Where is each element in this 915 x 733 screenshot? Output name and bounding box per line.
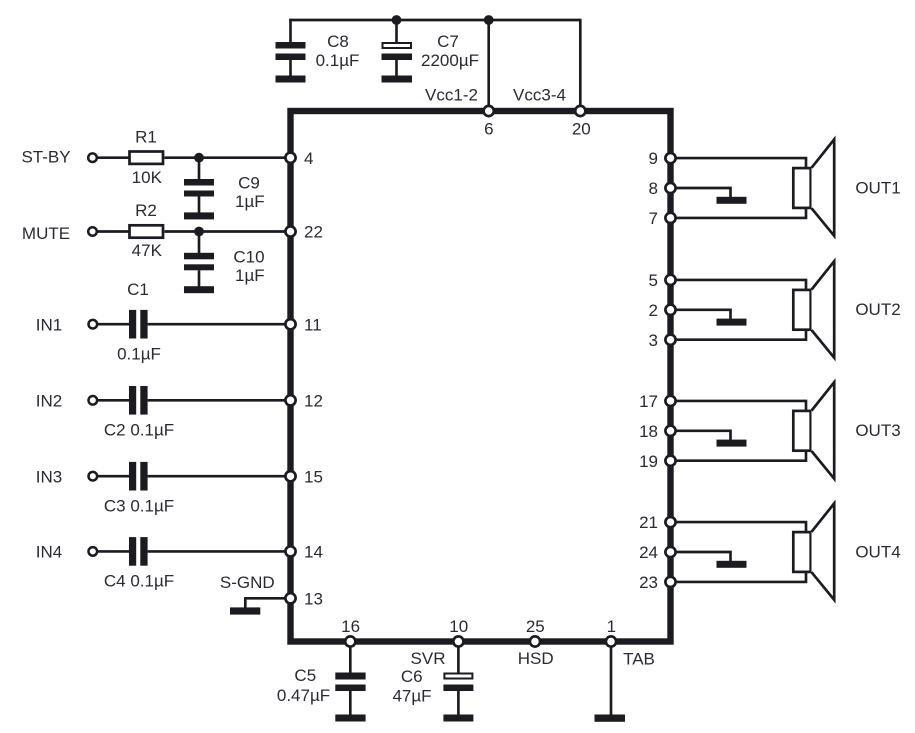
terminal IN2 xyxy=(89,396,98,405)
svg-text:1µF: 1µF xyxy=(235,266,265,285)
resistor R2 xyxy=(130,225,164,237)
ground bar of OUT4 return xyxy=(717,561,747,568)
pin number 7 xyxy=(649,209,658,228)
capacitor C9 lead xyxy=(198,158,201,180)
speaker OUT2 driver box xyxy=(793,290,810,330)
speaker OUT2 cone xyxy=(812,261,835,358)
wire rail to pin 6 xyxy=(487,20,490,110)
svg-text:1: 1 xyxy=(607,617,616,636)
wire pin 19 to speaker - xyxy=(672,450,806,460)
capacitor C1 right plate xyxy=(140,310,147,339)
value 47K of R2 xyxy=(132,241,163,260)
pin 3 circle xyxy=(665,335,675,345)
net label IN1 xyxy=(36,315,62,334)
value 0.1µF of C8 xyxy=(316,51,360,70)
node junction dot at pin6 branch xyxy=(484,15,494,25)
pin number 3 xyxy=(649,331,658,350)
wire pin 17 to speaker + xyxy=(672,401,806,411)
svg-text:21: 21 xyxy=(639,513,658,532)
terminal IN1 xyxy=(89,320,98,329)
wire C3 to pin 15 xyxy=(148,475,289,478)
pin number 21 xyxy=(639,513,658,532)
speaker OUT3 driver box xyxy=(793,411,810,451)
svg-text:4: 4 xyxy=(304,149,313,168)
wire IN2 to C2 xyxy=(97,399,129,402)
svg-text:R1: R1 xyxy=(135,128,157,147)
capacitor C8 bottom plate xyxy=(276,54,306,61)
pin number 10 xyxy=(449,617,468,636)
svg-text:R2: R2 xyxy=(135,201,157,220)
pin number 6 xyxy=(484,120,493,139)
svg-text:13: 13 xyxy=(304,589,323,608)
svg-text:14: 14 xyxy=(304,543,323,562)
pin 9 circle xyxy=(665,153,675,163)
capacitor C7 lead to ground xyxy=(395,60,398,77)
speaker OUT1 cone xyxy=(812,139,835,236)
wire C1 to pin 11 xyxy=(148,323,289,326)
wire IN4 to C4 xyxy=(97,550,129,553)
pin 13 circle xyxy=(285,593,295,603)
value 10K of R1 xyxy=(132,168,163,187)
net label OUT4 xyxy=(855,542,900,561)
wire C2 to pin 12 xyxy=(148,399,289,402)
pin 7 circle xyxy=(665,213,675,223)
capacitor C6 bottom plate xyxy=(443,685,473,692)
svg-text:IN3: IN3 xyxy=(36,467,62,486)
svg-text:24: 24 xyxy=(639,543,658,562)
capacitor C2 right plate xyxy=(140,386,147,415)
wire pin 10 lead down xyxy=(457,642,460,674)
svg-text:47K: 47K xyxy=(132,241,163,260)
pin number 23 xyxy=(639,573,658,592)
ground bar of C6 xyxy=(443,715,473,722)
wire pin 21 to speaker + xyxy=(672,522,806,532)
wire C4 to pin 14 xyxy=(148,550,289,553)
wire pin 13 to signal ground xyxy=(245,598,286,608)
net label IN2 xyxy=(36,391,62,410)
label C6 xyxy=(401,667,423,686)
svg-text:12: 12 xyxy=(304,391,323,410)
svg-text:10K: 10K xyxy=(132,168,163,187)
wire pin 23 to speaker - xyxy=(672,572,806,582)
resistor R1 xyxy=(130,152,164,164)
pin number 18 xyxy=(639,422,658,441)
svg-text:C9: C9 xyxy=(238,174,260,193)
svg-text:C1: C1 xyxy=(127,280,149,299)
capacitor C7 lead xyxy=(395,20,398,43)
svg-text:19: 19 xyxy=(639,452,658,471)
net label OUT3 xyxy=(855,421,900,440)
wire pin 1 TAB lead to ground xyxy=(610,642,613,716)
svg-text:C7: C7 xyxy=(437,32,459,51)
pin 23 circle xyxy=(665,577,675,587)
wire rail to pin 20 xyxy=(579,19,582,110)
svg-text:OUT4: OUT4 xyxy=(855,542,900,561)
svg-text:6: 6 xyxy=(484,120,493,139)
wire pin 24 to ground xyxy=(672,552,731,562)
wire pin 5 to speaker + xyxy=(672,280,806,290)
pin 14 circle xyxy=(285,546,295,556)
pin 16 circle xyxy=(345,636,355,646)
node junction dot at C7 on rail xyxy=(392,15,402,25)
op-amp-IC U1 TDA7560 body xyxy=(291,111,671,642)
capacitor C1 left plate xyxy=(129,310,136,339)
wire R2 to pin 22 xyxy=(165,230,290,233)
pin 2 circle xyxy=(665,305,675,315)
svg-text:11: 11 xyxy=(304,315,322,334)
svg-text:1µF: 1µF xyxy=(235,192,265,211)
speaker OUT1 driver box xyxy=(793,168,810,208)
svg-text:2: 2 xyxy=(649,301,658,320)
svg-text:3: 3 xyxy=(649,331,658,350)
capacitor C8 lead xyxy=(289,19,292,43)
label C4 0.1µF xyxy=(104,572,174,591)
pin 17 circle xyxy=(665,396,675,406)
svg-text:IN4: IN4 xyxy=(36,543,62,562)
svg-text:2200µF: 2200µF xyxy=(421,51,479,70)
net label Vcc3-4 xyxy=(513,86,566,105)
pin number 24 xyxy=(639,543,658,562)
capacitor C10 bottom plate xyxy=(184,264,214,270)
ground bar of C10 xyxy=(184,286,214,293)
wire pin 7 to speaker - xyxy=(672,208,806,218)
speaker OUT4 cone xyxy=(812,503,835,600)
value 1µF of C9 xyxy=(235,192,265,211)
terminal ST-BY xyxy=(88,153,97,162)
svg-text:C6: C6 xyxy=(401,667,423,686)
wire pin 3 to speaker - xyxy=(672,329,806,339)
capacitor C5 top plate xyxy=(335,673,365,680)
speaker OUT4 driver box xyxy=(793,532,810,572)
svg-text:8: 8 xyxy=(649,179,658,198)
pin 11 circle xyxy=(285,319,295,329)
svg-text:C4 0.1µF: C4 0.1µF xyxy=(104,572,174,591)
svg-text:23: 23 xyxy=(639,573,658,592)
capacitor C3 right plate xyxy=(140,462,147,491)
capacitor C8 lead to ground xyxy=(289,60,292,77)
wire pin 16 lead down xyxy=(349,642,352,674)
value 0.1µF of C1 xyxy=(117,344,161,363)
pin number 2 xyxy=(649,301,658,320)
ground bar of OUT3 return xyxy=(717,440,747,447)
wire IN3 to C3 xyxy=(97,475,129,478)
svg-text:TAB: TAB xyxy=(623,649,655,668)
value 0.47µF of C5 xyxy=(277,686,330,705)
pin 25 circle xyxy=(530,636,540,646)
pin number 14 xyxy=(304,543,323,562)
ground bar of C9 xyxy=(184,212,214,219)
label R2 xyxy=(135,201,157,220)
svg-text:Vcc3-4: Vcc3-4 xyxy=(513,86,566,105)
pin number 25 xyxy=(526,617,545,636)
label C9 xyxy=(238,174,260,193)
pin number 16 xyxy=(341,617,360,636)
net label ST-BY xyxy=(21,147,70,166)
svg-text:MUTE: MUTE xyxy=(22,224,70,243)
label C8 xyxy=(327,32,349,51)
label C1 xyxy=(127,280,149,299)
svg-text:Vcc1-2: Vcc1-2 xyxy=(425,86,478,105)
node junction dot ST-BY/C9 xyxy=(194,153,204,163)
pin 8 circle xyxy=(665,183,675,193)
terminal MUTE xyxy=(88,227,97,236)
wire pin 9 to speaker + xyxy=(672,158,806,168)
pin 1 circle xyxy=(606,636,616,646)
svg-text:C8: C8 xyxy=(327,32,349,51)
svg-text:9: 9 xyxy=(649,149,658,168)
pin number 9 xyxy=(649,149,658,168)
speaker OUT3 cone xyxy=(812,382,835,479)
capacitor C8 top plate xyxy=(276,42,306,49)
net label MUTE xyxy=(22,224,70,243)
capacitor C10 lead to ground xyxy=(198,270,201,287)
pin number 4 xyxy=(304,149,313,168)
net label IN4 xyxy=(36,543,62,562)
svg-text:C10: C10 xyxy=(233,248,264,267)
svg-text:18: 18 xyxy=(639,422,658,441)
capacitor C9 lead to ground xyxy=(198,197,201,214)
svg-text:ST-BY: ST-BY xyxy=(21,147,70,166)
pin 19 circle xyxy=(665,456,675,466)
svg-text:OUT3: OUT3 xyxy=(855,421,900,440)
pin 10 circle xyxy=(453,636,463,646)
pin 6 circle xyxy=(484,106,494,116)
ground bar of C8 xyxy=(276,76,306,83)
net label OUT2 xyxy=(855,300,900,319)
capacitor C5 lead to ground xyxy=(349,691,352,716)
wire pin 18 to ground xyxy=(672,431,731,441)
capacitor C2 left plate xyxy=(129,386,136,415)
svg-text:17: 17 xyxy=(639,392,658,411)
value 47µF of C6 xyxy=(392,687,431,706)
pin 21 circle xyxy=(665,517,675,527)
label TAB xyxy=(623,649,655,668)
pin 22 circle xyxy=(285,226,295,236)
pin 24 circle xyxy=(665,547,675,557)
capacitor C7 bottom plate xyxy=(382,54,413,61)
terminal IN4 xyxy=(89,547,98,556)
ground bar of C7 xyxy=(382,76,413,83)
capacitor C4 left plate xyxy=(129,537,136,566)
pin number 13 xyxy=(304,589,323,608)
pin number 19 xyxy=(639,452,658,471)
svg-text:10: 10 xyxy=(449,617,468,636)
net label S-GND xyxy=(220,573,275,592)
capacitor C9 bottom plate xyxy=(184,191,214,197)
pin number 11 xyxy=(304,315,322,334)
svg-text:16: 16 xyxy=(341,617,360,636)
pin number 15 xyxy=(304,467,323,486)
svg-text:OUT2: OUT2 xyxy=(855,300,900,319)
svg-text:0.1µF: 0.1µF xyxy=(316,51,360,70)
svg-text:0.1µF: 0.1µF xyxy=(117,344,161,363)
svg-text:IN2: IN2 xyxy=(36,391,62,410)
wire pin 2 to ground xyxy=(672,310,731,320)
terminal IN3 xyxy=(89,472,98,481)
svg-text:15: 15 xyxy=(304,467,323,486)
ground bar of OUT2 return xyxy=(717,319,747,326)
ground bar of TAB pin 1 xyxy=(595,715,626,722)
wire ST-BY to R1 xyxy=(97,156,129,159)
svg-text:47µF: 47µF xyxy=(392,687,431,706)
value 2200µF of C7 xyxy=(421,51,479,70)
pin number 1 xyxy=(607,617,616,636)
svg-text:7: 7 xyxy=(649,209,658,228)
capacitor C4 right plate xyxy=(140,537,147,566)
svg-text:SVR: SVR xyxy=(411,649,446,668)
svg-text:22: 22 xyxy=(304,223,323,242)
svg-text:25: 25 xyxy=(526,617,545,636)
pin number 8 xyxy=(649,179,658,198)
label C2 0.1µF xyxy=(104,421,174,440)
svg-text:IN1: IN1 xyxy=(36,315,62,334)
pin number 20 xyxy=(572,120,591,139)
net label Vcc1-2 xyxy=(425,86,478,105)
net label OUT1 xyxy=(855,178,900,197)
pin number 12 xyxy=(304,391,323,410)
pin 4 circle xyxy=(285,153,295,163)
value 1µF of C10 xyxy=(235,266,265,285)
pin number 5 xyxy=(649,271,658,290)
svg-text:20: 20 xyxy=(572,120,591,139)
svg-text:HSD: HSD xyxy=(518,649,554,668)
node junction dot MUTE/C10 xyxy=(194,227,204,237)
label R1 xyxy=(135,128,157,147)
wire Vcc top rail xyxy=(289,19,580,22)
ground bar of C5 xyxy=(335,715,365,722)
capacitor C5 bottom plate xyxy=(335,685,365,692)
svg-text:5: 5 xyxy=(649,271,658,290)
capacitor C10 lead xyxy=(198,232,201,254)
wire pin 8 to ground xyxy=(672,188,731,198)
capacitor C10 top plate xyxy=(184,253,214,259)
label HSD xyxy=(518,649,554,668)
net label IN3 xyxy=(36,467,62,486)
pin 20 circle xyxy=(575,106,585,116)
svg-text:C3 0.1µF: C3 0.1µF xyxy=(104,497,174,516)
wire MUTE to R2 xyxy=(97,230,129,233)
capacitor C3 left plate xyxy=(129,462,136,491)
capacitor C9 top plate xyxy=(184,179,214,186)
ground bar of OUT1 return xyxy=(717,197,747,204)
svg-text:S-GND: S-GND xyxy=(220,573,275,592)
pin 15 circle xyxy=(285,471,295,481)
svg-text:C5: C5 xyxy=(294,666,316,685)
svg-text:OUT1: OUT1 xyxy=(855,178,900,197)
label SVR xyxy=(411,649,446,668)
wire R1 to pin 4 xyxy=(165,156,290,159)
capacitor C6 positive plate (electrolytic) xyxy=(444,674,472,679)
svg-text:0.47µF: 0.47µF xyxy=(277,686,330,705)
pin number 22 xyxy=(304,223,323,242)
capacitor C7 positive plate (electrolytic) xyxy=(383,43,412,48)
label C5 xyxy=(294,666,316,685)
ground bar S-GND xyxy=(230,607,260,614)
pin 12 circle xyxy=(285,395,295,405)
label C7 xyxy=(437,32,459,51)
pin 5 circle xyxy=(665,275,675,285)
wire IN1 to C1 xyxy=(97,323,129,326)
pin 18 circle xyxy=(665,426,675,436)
label C10 xyxy=(233,248,264,267)
svg-text:C2 0.1µF: C2 0.1µF xyxy=(104,421,174,440)
pin number 17 xyxy=(639,392,658,411)
label C3 0.1µF xyxy=(104,497,174,516)
capacitor C6 lead to ground xyxy=(457,691,460,716)
